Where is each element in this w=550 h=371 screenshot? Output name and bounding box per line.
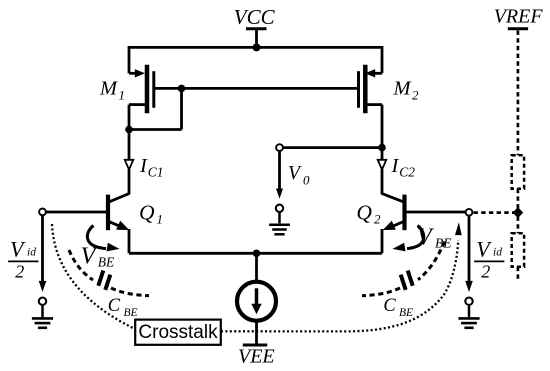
svg-text:Q: Q <box>139 201 155 225</box>
svg-text:VCC: VCC <box>234 5 276 29</box>
svg-text:id: id <box>493 246 502 258</box>
svg-text:M: M <box>393 78 413 100</box>
svg-text:0: 0 <box>303 173 310 188</box>
svg-text:BE: BE <box>399 307 413 319</box>
svg-text:C1: C1 <box>148 165 164 180</box>
svg-text:id: id <box>27 246 36 258</box>
svg-text:C: C <box>108 296 121 316</box>
svg-text:2: 2 <box>374 211 381 226</box>
svg-text:Q: Q <box>356 201 372 225</box>
svg-text:C: C <box>383 296 396 316</box>
svg-text:VEE: VEE <box>238 346 275 368</box>
svg-text:BE: BE <box>124 307 138 319</box>
svg-text:VREF: VREF <box>494 5 544 27</box>
svg-text:BE: BE <box>98 255 115 270</box>
svg-text:I: I <box>139 155 148 177</box>
svg-text:1: 1 <box>119 88 126 103</box>
svg-text:M: M <box>99 78 119 100</box>
svg-text:C2: C2 <box>399 165 415 180</box>
svg-text:1: 1 <box>157 211 164 226</box>
svg-text:2: 2 <box>412 88 419 103</box>
svg-text:I: I <box>391 155 400 177</box>
svg-text:2: 2 <box>481 262 490 282</box>
svg-text:2: 2 <box>15 262 24 282</box>
svg-text:BE: BE <box>435 236 452 251</box>
svg-text:Crosstalk: Crosstalk <box>138 322 218 343</box>
svg-text:V: V <box>288 163 302 184</box>
